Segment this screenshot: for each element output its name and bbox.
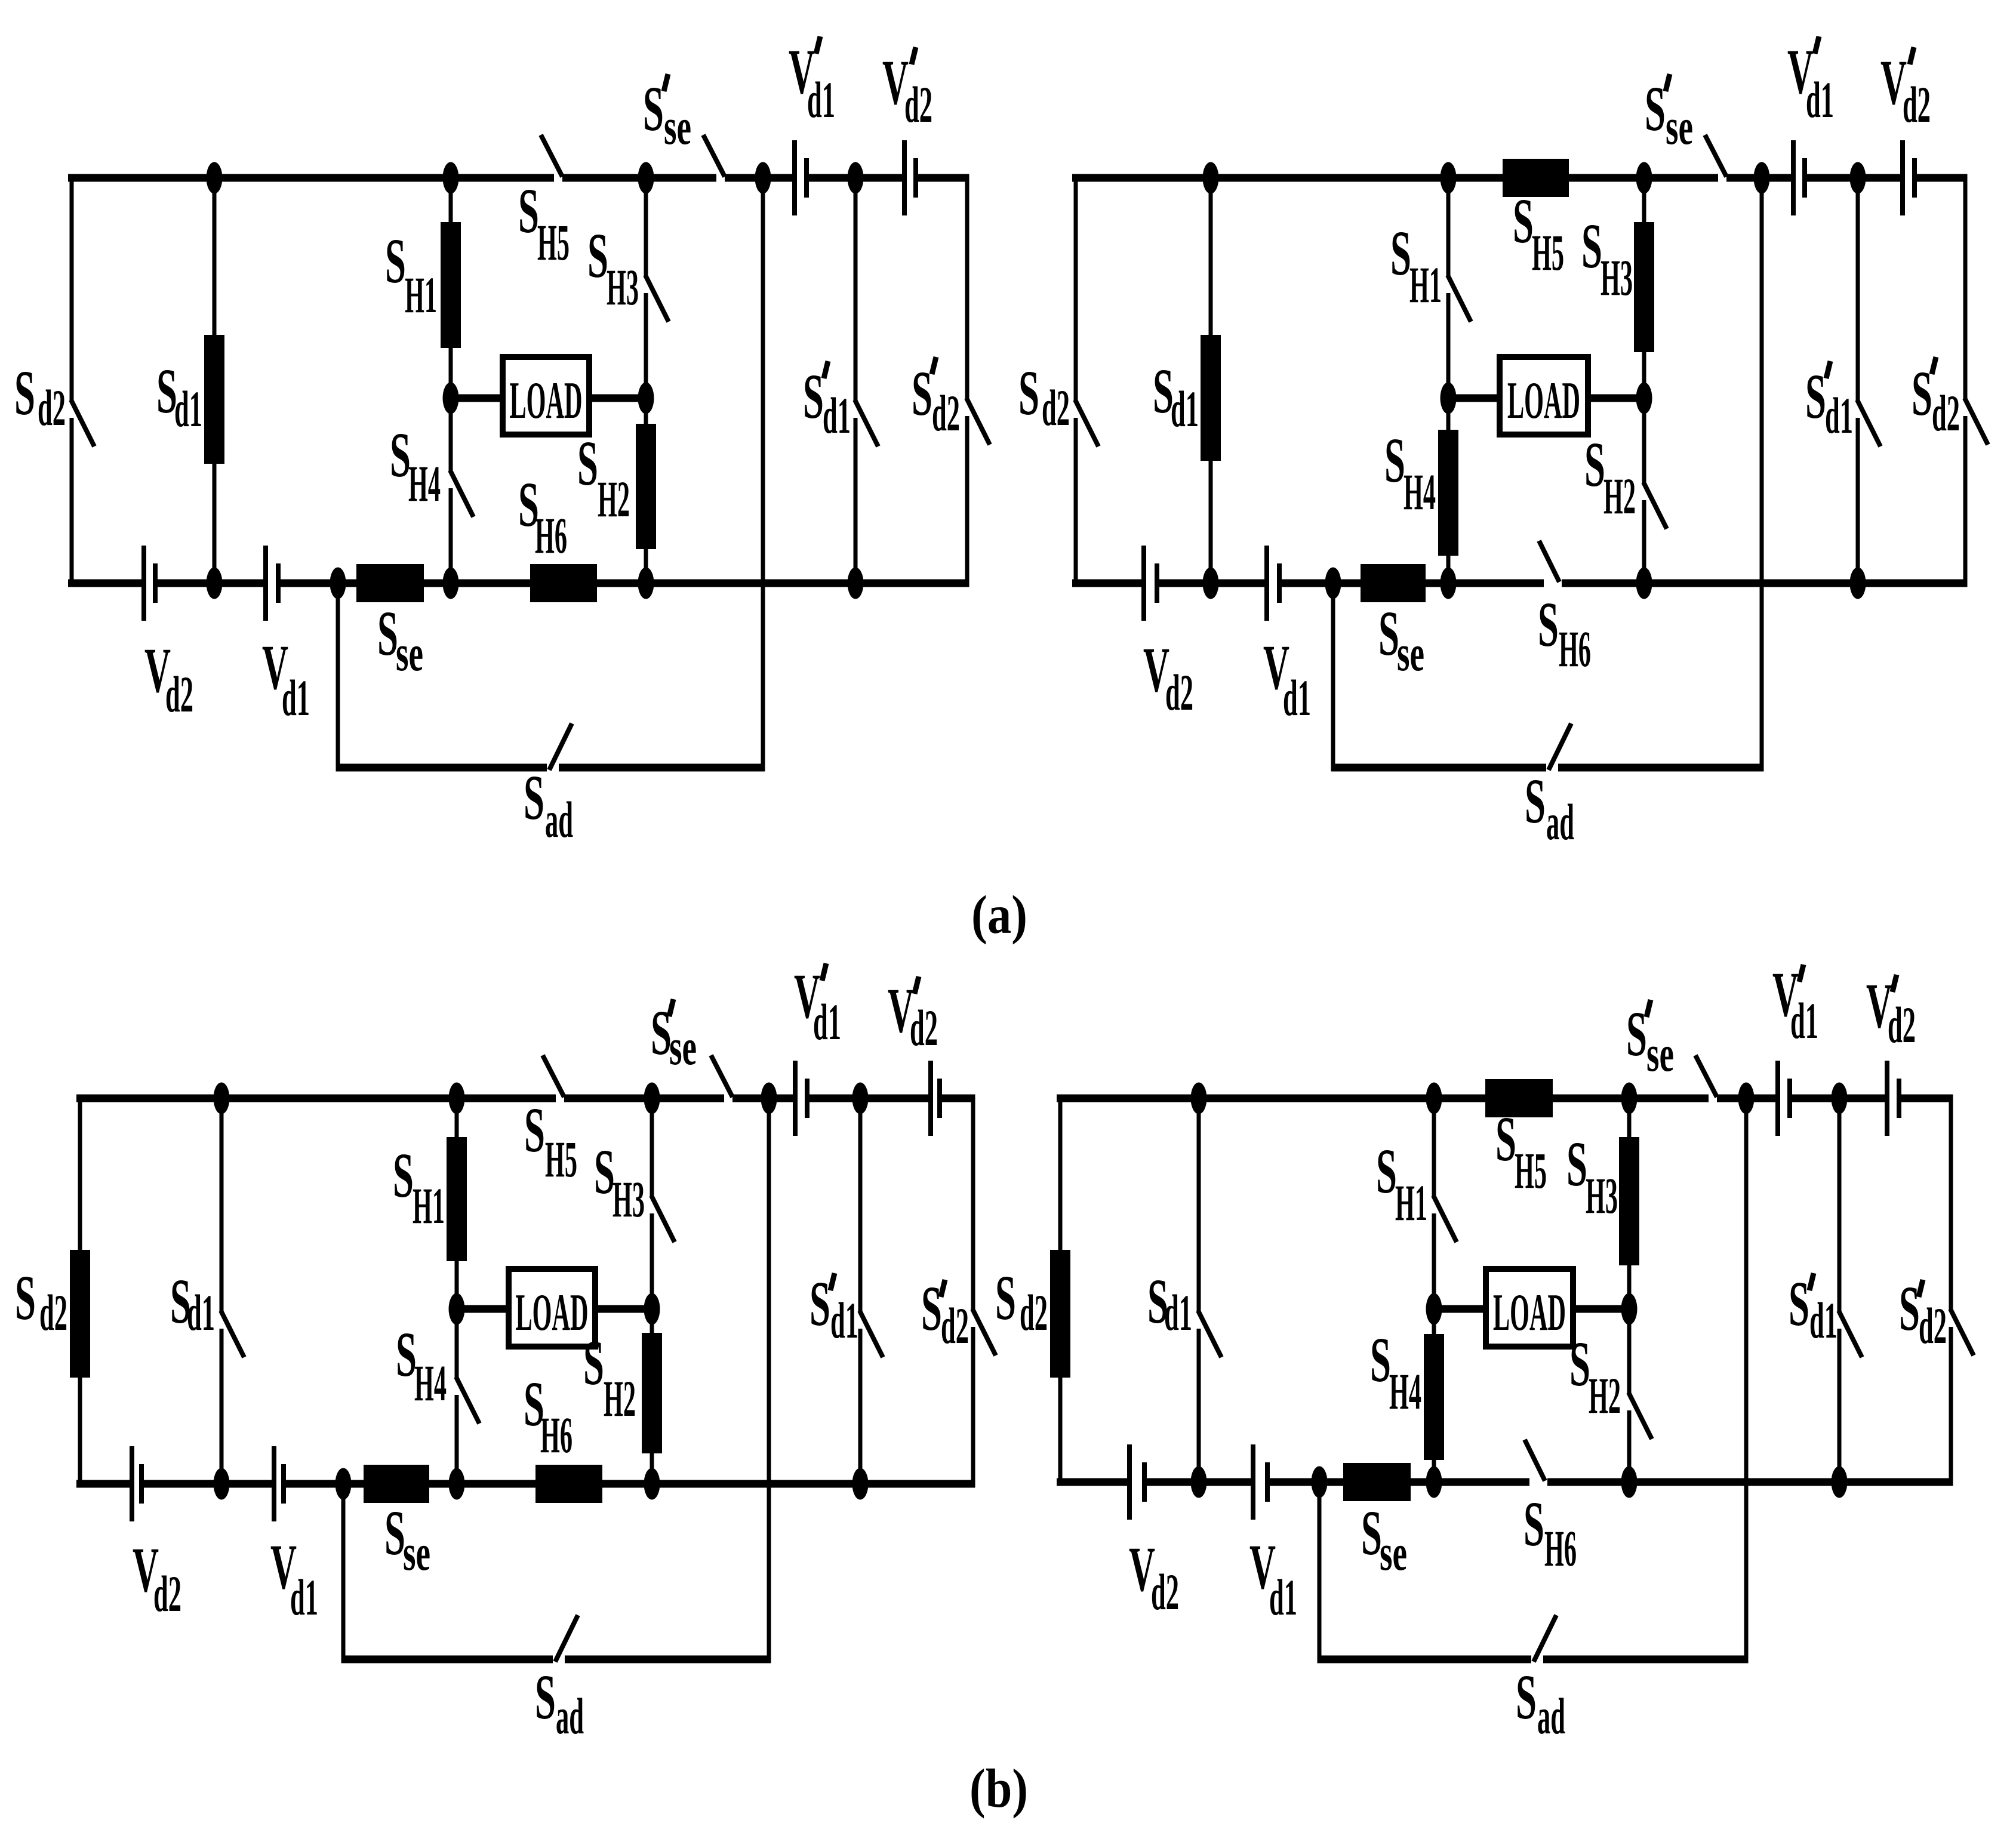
svg-text:LOAD: LOAD <box>516 1284 589 1342</box>
svg-text:S: S <box>577 429 598 499</box>
switch S'_d2 (open) on right edge (circuit a-right) <box>1963 178 1989 587</box>
label S'_d1 (circuit a-left) <box>803 361 851 444</box>
label S'_se (circuit a-left) <box>643 74 691 155</box>
svg-text:se: se <box>664 98 691 155</box>
label S'_se (circuit b-right) <box>1626 999 1674 1082</box>
switch S_se (closed bar) on bottom rail (circuit a-right) <box>1361 564 1426 602</box>
svg-text:S: S <box>535 1662 556 1733</box>
label S_H6 (circuit a-right) <box>1538 590 1591 677</box>
svg-text:H2: H2 <box>1603 467 1636 525</box>
svg-text:se: se <box>396 624 423 682</box>
svg-text:H3: H3 <box>1601 249 1633 306</box>
label S_d1 (circuit b-right) <box>1147 1267 1192 1341</box>
switch S_H2 (open) (circuit a-right) <box>1642 398 1667 583</box>
svg-text:d2: d2 <box>1919 1297 1947 1354</box>
svg-text:S: S <box>396 1320 417 1390</box>
svg-text:S: S <box>1645 74 1666 144</box>
wire mid vertical (top rail to S_ad bypass) (circuit b-left) <box>767 1098 771 1663</box>
load box LOAD (circuit b-left) <box>457 1269 652 1347</box>
battery V_d2 (circuit a-right) <box>1141 546 1159 621</box>
svg-text:d1: d1 <box>1809 1292 1838 1349</box>
svg-text:S: S <box>1361 1498 1382 1569</box>
svg-text:S: S <box>377 599 398 669</box>
switch S_H1 (open) (circuit b-right) <box>1432 1098 1457 1309</box>
label S_d2 (circuit a-right) <box>1018 358 1070 436</box>
switch S_H4 (open) (circuit a-left) <box>449 398 474 583</box>
svg-text:d1: d1 <box>1283 669 1311 726</box>
svg-text:H1: H1 <box>405 266 437 324</box>
svg-text:se: se <box>1397 624 1424 682</box>
label S_ad (circuit b-right) <box>1516 1662 1565 1745</box>
svg-text:H1: H1 <box>1395 1174 1427 1231</box>
switch S'_d2 (open) on right edge (circuit b-right) <box>1949 1098 1974 1486</box>
switch S_H5 (closed bar) on top rail (circuit b-right) <box>1485 1079 1553 1117</box>
svg-text:d1: d1 <box>174 380 202 438</box>
switch S_H6 (closed bar) on bottom rail (circuit b-left) <box>535 1465 602 1503</box>
svg-text:d2: d2 <box>1932 384 1960 442</box>
battery V'_d1 (circuit a-left) <box>792 140 809 215</box>
svg-text:S: S <box>995 1263 1016 1333</box>
label S_H1 (circuit b-left) <box>393 1141 445 1234</box>
svg-text:S: S <box>587 221 608 291</box>
svg-text:S: S <box>393 1141 414 1211</box>
label S_se (circuit b-left) <box>384 1498 430 1581</box>
svg-text:H6: H6 <box>1544 1520 1577 1577</box>
switch S'_se (open blade) on top rail (circuit a-right) <box>1705 135 1726 177</box>
switch S_H4 (closed) (circuit b-right) <box>1424 1309 1444 1482</box>
svg-text:se: se <box>1666 98 1693 155</box>
switch S_H6 (open blade) on bottom rail (circuit b-right) <box>1525 1440 1545 1481</box>
label V'_d2 (circuit a-right) <box>1880 47 1931 133</box>
label S_se (circuit a-left) <box>377 599 423 682</box>
svg-text:d1: d1 <box>1790 992 1818 1049</box>
svg-text:S: S <box>1495 1104 1516 1175</box>
switch S'_d1 (open) (circuit a-left) <box>854 178 879 583</box>
switch S_H3 (closed) (circuit a-right) <box>1634 178 1654 398</box>
switch S_d1 (open) (circuit b-left) <box>220 1098 245 1484</box>
label S'_d1 (circuit b-left) <box>810 1269 858 1349</box>
svg-text:S: S <box>1513 186 1534 257</box>
label S'_se (circuit b-left) <box>651 998 697 1076</box>
svg-text:H6: H6 <box>1559 620 1591 677</box>
label S_ad (circuit a-left) <box>524 763 573 848</box>
svg-text:S: S <box>1525 766 1546 837</box>
svg-text:S: S <box>1378 599 1399 669</box>
svg-text:d1: d1 <box>282 669 310 726</box>
svg-text:d2: d2 <box>904 76 932 133</box>
switch S_H2 (open) (circuit b-right) <box>1627 1309 1652 1482</box>
svg-text:d1: d1 <box>1825 387 1853 444</box>
switch S_ad (open) bypass branch (circuit a-right) <box>1331 583 1764 772</box>
label S_ad (circuit b-left) <box>535 1662 584 1745</box>
svg-text:d2: d2 <box>1020 1284 1048 1341</box>
label S_d1 (circuit b-left) <box>170 1267 215 1341</box>
switch S_d1 (closed) (circuit a-left) <box>204 178 224 583</box>
switch S'_d1 (open) (circuit b-right) <box>1838 1098 1863 1482</box>
battery V_d2 (circuit a-left) <box>141 546 158 621</box>
svg-text:S: S <box>594 1137 615 1207</box>
svg-text:S: S <box>1376 1136 1397 1207</box>
svg-text:H4: H4 <box>408 455 441 512</box>
switch S_H5 (open blade) on top rail (circuit a-left) <box>541 135 562 177</box>
wire mid vertical (top rail to S_ad bypass) (circuit a-left) <box>761 178 765 772</box>
switch S_H3 (open) (circuit b-left) <box>650 1098 675 1309</box>
battery V'_d1 (circuit b-right) <box>1775 1061 1792 1136</box>
svg-text:S: S <box>1370 1325 1391 1395</box>
label S'_d2 (circuit b-right) <box>1899 1274 1947 1354</box>
switch S_H2 (closed) (circuit a-left) <box>636 398 656 583</box>
label S_H3 (circuit a-left) <box>587 221 639 316</box>
battery V_d2 (circuit b-right) <box>1127 1444 1147 1520</box>
label S_H4 (circuit a-left) <box>390 420 441 512</box>
svg-text:S: S <box>1912 359 1932 429</box>
switch S_H6 (closed bar) on bottom rail (circuit a-left) <box>530 564 597 602</box>
svg-text:d2: d2 <box>165 666 193 723</box>
battery V_d1 (circuit b-left) <box>272 1446 286 1521</box>
label S_H4 (circuit a-right) <box>1384 426 1436 520</box>
label S_H4 (circuit b-left) <box>396 1320 447 1412</box>
label S_d2 (circuit b-left) <box>15 1263 67 1341</box>
label V_d2 (circuit b-left) <box>133 1535 181 1622</box>
svg-text:LOAD: LOAD <box>510 372 583 430</box>
svg-text:(b): (b) <box>969 1758 1028 1819</box>
svg-text:se: se <box>403 1524 430 1581</box>
label S_H3 (circuit b-left) <box>594 1137 645 1228</box>
switch S_d1 (closed) (circuit a-right) <box>1201 178 1221 583</box>
svg-text:S: S <box>1899 1274 1920 1344</box>
svg-text:ad: ad <box>1537 1687 1565 1745</box>
svg-text:S: S <box>14 358 35 429</box>
svg-text:d2: d2 <box>1042 379 1070 436</box>
svg-text:se: se <box>1380 1524 1407 1581</box>
svg-text:d2: d2 <box>1165 664 1193 721</box>
battery V'_d2 (circuit b-right) <box>1885 1061 1901 1136</box>
switch S_d1 (open) (circuit b-right) <box>1197 1098 1222 1482</box>
svg-text:d2: d2 <box>941 1297 969 1354</box>
junction nodes (circuit a-left) <box>207 162 864 599</box>
wire bottom rail (circuit b-left) <box>76 1480 975 1488</box>
svg-text:S: S <box>1581 211 1602 282</box>
battery V_d2 (circuit b-left) <box>130 1446 144 1521</box>
svg-text:d2: d2 <box>932 384 960 442</box>
switch S_H4 (closed) (circuit a-right) <box>1438 398 1458 583</box>
svg-text:H4: H4 <box>1389 1363 1421 1420</box>
svg-text:S: S <box>1018 358 1039 429</box>
svg-text:H5: H5 <box>1532 224 1564 281</box>
svg-text:d1: d1 <box>813 993 841 1050</box>
switch S'_d1 (open) (circuit a-right) <box>1856 178 1881 583</box>
svg-text:H2: H2 <box>598 470 630 528</box>
switch S'_d2 (open) on right edge (circuit b-left) <box>971 1098 996 1488</box>
label S_d2 (circuit b-right) <box>995 1263 1048 1341</box>
wire top rail (circuit b-right) <box>1057 1095 1953 1102</box>
svg-text:S: S <box>643 74 664 144</box>
svg-text:d1: d1 <box>1164 1284 1192 1341</box>
svg-text:H6: H6 <box>535 507 567 564</box>
label S_H2 (circuit b-left) <box>583 1328 636 1427</box>
battery V'_d1 (circuit b-left) <box>793 1061 810 1136</box>
svg-text:d2: d2 <box>1903 76 1931 133</box>
svg-text:d1: d1 <box>830 1292 858 1349</box>
wire mid vertical (top rail to S_ad bypass) (circuit a-right) <box>1760 178 1764 772</box>
switch S_ad (open) bypass branch (circuit a-left) <box>336 583 765 772</box>
label S_H5 (circuit b-right) <box>1495 1104 1547 1199</box>
svg-text:S: S <box>524 1095 545 1166</box>
wire bottom rail (circuit a-left) <box>68 580 969 587</box>
battery V_d1 (circuit b-right) <box>1251 1444 1270 1520</box>
svg-text:S: S <box>518 176 539 247</box>
wire top rail (circuit a-left) <box>68 174 969 182</box>
load box LOAD (circuit a-right) <box>1448 357 1644 435</box>
svg-text:S: S <box>912 359 932 429</box>
svg-text:S: S <box>1584 430 1605 500</box>
label S_H6 (circuit b-left) <box>524 1369 573 1464</box>
junction nodes (circuit b-left) <box>214 1083 869 1500</box>
svg-text:H6: H6 <box>540 1406 573 1464</box>
load box LOAD (circuit a-left) <box>451 357 646 435</box>
svg-text:LOAD: LOAD <box>1507 372 1580 430</box>
label V'_d1 (circuit a-left) <box>789 36 835 128</box>
switch S_H3 (open) (circuit a-left) <box>644 178 669 398</box>
label S_H6 (circuit a-left) <box>518 470 567 564</box>
label S_H3 (circuit b-right) <box>1566 1129 1618 1224</box>
label S_d1 (circuit a-left) <box>156 356 202 438</box>
label V'_d2 (circuit b-left) <box>888 976 938 1056</box>
label V_d1 (circuit a-left) <box>262 633 310 726</box>
svg-text:H1: H1 <box>1409 256 1442 313</box>
svg-text:S: S <box>1516 1662 1537 1733</box>
svg-text:(a): (a) <box>971 885 1027 945</box>
svg-text:H1: H1 <box>413 1177 445 1234</box>
label S_se (circuit b-right) <box>1361 1498 1407 1581</box>
label S'_d2 (circuit a-left) <box>912 357 960 442</box>
switch S_d2 (open) on left edge (circuit a-left) <box>70 178 95 583</box>
switch S_H2 (closed) (circuit b-left) <box>642 1309 662 1484</box>
svg-text:d2: d2 <box>153 1565 181 1622</box>
switch S_se (closed bar) on bottom rail (circuit b-left) <box>364 1465 429 1503</box>
svg-text:H3: H3 <box>613 1170 645 1228</box>
svg-text:S: S <box>1569 1329 1590 1400</box>
switch S'_d2 (open) on right edge (circuit a-left) <box>965 178 990 587</box>
svg-text:d1: d1 <box>823 387 851 444</box>
switch S_d2 (closed) on left edge (circuit b-right) <box>1050 1098 1070 1482</box>
battery V_d1 (circuit a-right) <box>1264 546 1282 621</box>
svg-text:H5: H5 <box>1515 1142 1547 1199</box>
label V_d2 (circuit a-right) <box>1143 635 1193 721</box>
label S_H5 (circuit a-right) <box>1513 186 1564 281</box>
switch S_H3 (closed) (circuit b-right) <box>1619 1098 1639 1309</box>
svg-text:S: S <box>385 226 406 297</box>
wire bottom rail (circuit b-right) <box>1057 1478 1953 1486</box>
switch S_H6 (open blade) on bottom rail (circuit a-right) <box>1539 541 1559 582</box>
label S_H5 (circuit b-left) <box>524 1095 577 1188</box>
svg-text:S: S <box>390 420 411 491</box>
svg-text:se: se <box>1646 1025 1674 1082</box>
caption (b) <box>969 1758 1028 1819</box>
svg-text:S: S <box>1805 362 1826 432</box>
svg-text:H2: H2 <box>1589 1367 1621 1424</box>
switch S'_se (open blade) on top rail (circuit b-right) <box>1695 1055 1717 1097</box>
label S_H4 (circuit b-right) <box>1370 1325 1421 1420</box>
battery V_d1 (circuit a-left) <box>263 546 281 621</box>
switch S'_se (open blade) on top rail (circuit a-left) <box>703 135 725 177</box>
svg-text:S: S <box>583 1328 604 1398</box>
svg-text:d2: d2 <box>1151 1563 1179 1621</box>
battery V'_d2 (circuit b-left) <box>928 1061 942 1136</box>
svg-text:d2: d2 <box>910 999 938 1056</box>
svg-text:H2: H2 <box>604 1370 636 1427</box>
battery V'_d2 (circuit a-left) <box>902 140 918 215</box>
switch S_H5 (open blade) on top rail (circuit b-left) <box>543 1055 564 1097</box>
label S_H1 (circuit a-left) <box>385 226 437 324</box>
svg-text:S: S <box>1384 426 1405 496</box>
svg-text:H4: H4 <box>414 1354 447 1412</box>
battery V'_d1 (circuit a-right) <box>1791 140 1807 215</box>
label S_d2 (circuit a-left) <box>14 358 66 436</box>
caption (a) <box>971 885 1027 945</box>
switch S'_se (open blade) on top rail (circuit b-left) <box>711 1055 732 1097</box>
junction nodes (circuit a-right) <box>1203 162 1866 599</box>
switch S_d2 (open) on left edge (circuit a-right) <box>1074 178 1099 583</box>
label V_d1 (circuit b-left) <box>270 1532 318 1626</box>
junction nodes (circuit b-right) <box>1191 1083 1848 1498</box>
label V_d2 (circuit a-left) <box>144 636 193 723</box>
switch S_d2 (closed) on left edge (circuit b-left) <box>70 1098 90 1484</box>
svg-text:d2: d2 <box>39 1284 67 1341</box>
svg-text:H3: H3 <box>607 258 639 316</box>
label V_d1 (circuit a-right) <box>1263 633 1311 726</box>
svg-text:d1: d1 <box>187 1284 215 1341</box>
label S_H5 (circuit a-left) <box>518 176 570 271</box>
label V'_d1 (circuit b-left) <box>794 962 841 1050</box>
svg-text:S: S <box>15 1263 36 1333</box>
svg-text:se: se <box>669 1018 697 1076</box>
svg-text:d1: d1 <box>1171 380 1199 438</box>
svg-text:S: S <box>803 362 824 432</box>
label S_H6 (circuit b-right) <box>1523 1489 1577 1577</box>
label V_d1 (circuit b-right) <box>1249 1532 1297 1626</box>
svg-text:S: S <box>810 1269 830 1339</box>
wire mid vertical (top rail to S_ad bypass) (circuit b-right) <box>1744 1098 1749 1663</box>
battery V'_d2 (circuit a-right) <box>1900 140 1917 215</box>
switch S_ad (open) bypass branch (circuit b-left) <box>341 1484 771 1663</box>
label S_H2 (circuit b-right) <box>1569 1329 1621 1424</box>
svg-text:S: S <box>1538 590 1559 660</box>
svg-text:d1: d1 <box>1806 71 1834 128</box>
label S'_d1 (circuit b-right) <box>1789 1269 1838 1349</box>
label S_H2 (circuit a-right) <box>1584 430 1636 525</box>
svg-text:H3: H3 <box>1586 1167 1618 1224</box>
svg-text:ad: ad <box>1546 793 1574 851</box>
svg-text:S: S <box>1626 999 1647 1070</box>
label S_H1 (circuit b-right) <box>1376 1136 1427 1231</box>
svg-text:d2: d2 <box>38 379 66 436</box>
label V'_d1 (circuit a-right) <box>1787 36 1834 128</box>
svg-text:S: S <box>524 763 544 833</box>
svg-text:S: S <box>1566 1129 1587 1200</box>
label V'_d2 (circuit b-right) <box>1866 971 1916 1053</box>
svg-text:S: S <box>1789 1269 1809 1339</box>
label S'_d2 (circuit a-right) <box>1912 357 1960 442</box>
wire top rail (circuit b-left) <box>76 1095 975 1102</box>
switch S_H1 (closed) (circuit b-left) <box>447 1098 467 1309</box>
svg-text:d1: d1 <box>1269 1569 1297 1626</box>
label S'_se (circuit a-right) <box>1645 74 1693 155</box>
svg-text:ad: ad <box>556 1687 584 1745</box>
label S'_d1 (circuit a-right) <box>1805 361 1853 444</box>
switch S_ad (open) bypass branch (circuit b-right) <box>1318 1482 1749 1663</box>
switch S_se (closed bar) on bottom rail (circuit b-right) <box>1343 1463 1411 1501</box>
svg-text:H5: H5 <box>545 1130 577 1188</box>
svg-text:S: S <box>384 1498 405 1569</box>
label V_d2 (circuit b-right) <box>1129 1535 1179 1621</box>
label S_H3 (circuit a-right) <box>1581 211 1633 306</box>
switch S_H4 (open) (circuit b-left) <box>455 1309 480 1484</box>
label S_H1 (circuit a-right) <box>1390 218 1442 313</box>
load box LOAD (circuit b-right) <box>1434 1269 1629 1347</box>
switch S_se (closed bar) on bottom rail (circuit a-left) <box>356 564 424 602</box>
svg-text:d1: d1 <box>290 1569 318 1626</box>
svg-text:S: S <box>921 1274 942 1344</box>
switch S'_d1 (open) (circuit b-left) <box>858 1098 884 1484</box>
label S_H2 (circuit a-left) <box>577 429 630 528</box>
svg-text:S: S <box>1523 1489 1544 1560</box>
svg-text:LOAD: LOAD <box>1493 1284 1566 1342</box>
label S_ad (circuit a-right) <box>1525 766 1574 851</box>
svg-text:H5: H5 <box>537 214 570 271</box>
svg-text:ad: ad <box>545 791 573 848</box>
svg-text:d2: d2 <box>1888 996 1916 1053</box>
wire top rail (circuit a-right) <box>1072 174 1968 182</box>
svg-text:S: S <box>1390 218 1411 289</box>
wire bottom rail (circuit a-right) <box>1072 580 1968 587</box>
switch S_H1 (open) (circuit a-right) <box>1446 178 1472 398</box>
svg-text:H4: H4 <box>1403 463 1436 520</box>
switch S_H5 (closed bar) on top rail (circuit a-right) <box>1503 159 1569 197</box>
switch S_H1 (closed) (circuit a-left) <box>441 178 461 398</box>
label S'_d2 (circuit b-left) <box>921 1274 969 1354</box>
svg-text:d1: d1 <box>807 71 835 128</box>
label V'_d1 (circuit b-right) <box>1772 960 1818 1049</box>
label S_se (circuit a-right) <box>1378 599 1424 682</box>
label V'_d2 (circuit a-left) <box>882 47 932 133</box>
label S_d1 (circuit a-right) <box>1153 356 1199 438</box>
